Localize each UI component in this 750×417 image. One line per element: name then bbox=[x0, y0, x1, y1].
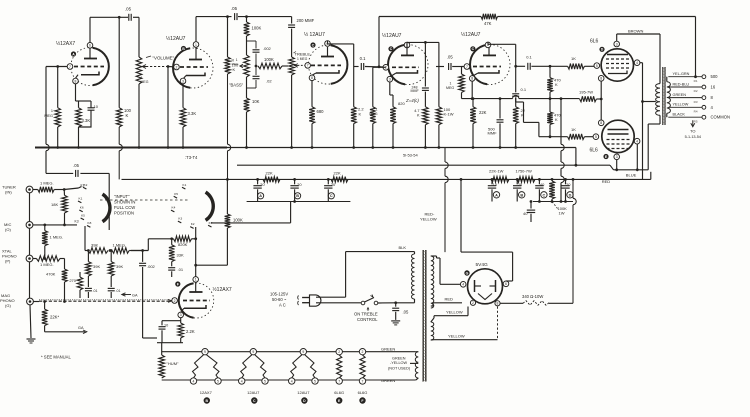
svg-text:.002: .002 bbox=[147, 264, 156, 269]
svg-text:MEG: MEG bbox=[141, 80, 149, 84]
svg-text:MEG: MEG bbox=[369, 112, 377, 116]
svg-text:CONTROL: CONTROL bbox=[357, 317, 378, 322]
svg-text:4: 4 bbox=[241, 379, 243, 383]
svg-text:K3: K3 bbox=[75, 220, 79, 224]
svg-text:GREEN: GREEN bbox=[381, 347, 395, 352]
svg-text:1750-7W: 1750-7W bbox=[516, 169, 532, 174]
svg-text:B: B bbox=[296, 194, 299, 198]
svg-text:1 MEG.: 1 MEG. bbox=[50, 235, 64, 240]
svg-text:40: 40 bbox=[540, 182, 545, 187]
svg-text:B: B bbox=[520, 193, 523, 197]
svg-text:3: 3 bbox=[182, 79, 184, 83]
svg-text:RED: RED bbox=[445, 296, 454, 301]
svg-text:6L6G: 6L6G bbox=[334, 390, 344, 395]
svg-text:K: K bbox=[417, 114, 420, 118]
svg-text:39K: 39K bbox=[93, 264, 100, 269]
svg-text:680: 680 bbox=[317, 109, 325, 114]
svg-text:40: 40 bbox=[523, 211, 528, 216]
svg-text:R1: R1 bbox=[694, 79, 698, 83]
svg-text:22K*: 22K* bbox=[50, 315, 59, 320]
svg-text:C: C bbox=[543, 193, 546, 197]
svg-text:20: 20 bbox=[297, 182, 302, 187]
svg-text:"BASS": "BASS" bbox=[229, 83, 244, 88]
svg-text:6L6G: 6L6G bbox=[358, 390, 368, 395]
svg-text:-YELLOW: -YELLOW bbox=[390, 361, 408, 365]
svg-text:5: 5 bbox=[217, 379, 219, 383]
svg-text:7: 7 bbox=[307, 64, 309, 68]
svg-text:MEG: MEG bbox=[44, 114, 53, 118]
svg-text:½12AU7: ½12AU7 bbox=[382, 32, 402, 39]
svg-text:10: 10 bbox=[164, 324, 168, 328]
svg-text:7: 7 bbox=[466, 65, 468, 69]
svg-text:4.7: 4.7 bbox=[414, 109, 419, 113]
svg-text:"HUM": "HUM" bbox=[167, 361, 180, 366]
svg-text:340 Ω-10W: 340 Ω-10W bbox=[522, 294, 543, 299]
svg-text:GREEN: GREEN bbox=[392, 357, 406, 361]
svg-text:YELLOW: YELLOW bbox=[673, 103, 689, 107]
svg-text:½12AX7: ½12AX7 bbox=[213, 286, 232, 293]
svg-text:.05: .05 bbox=[125, 7, 132, 12]
svg-text:Z=4(c): Z=4(c) bbox=[405, 98, 419, 103]
svg-text:8: 8 bbox=[311, 76, 313, 80]
svg-text:½ 12AU7: ½ 12AU7 bbox=[304, 31, 325, 38]
svg-text:22K-1W: 22K-1W bbox=[489, 169, 504, 174]
svg-text:7: 7 bbox=[338, 379, 340, 383]
svg-text:K8: K8 bbox=[88, 221, 92, 225]
svg-text:GA: GA bbox=[132, 294, 138, 298]
svg-text:3: 3 bbox=[616, 155, 618, 159]
svg-text:100K: 100K bbox=[233, 218, 243, 223]
svg-text:1K: 1K bbox=[571, 127, 576, 132]
svg-text:* SEE MANUAL: * SEE MANUAL bbox=[41, 355, 71, 360]
svg-text:½12AU7: ½12AU7 bbox=[166, 35, 186, 42]
svg-text:8: 8 bbox=[600, 121, 602, 125]
svg-text:.05: .05 bbox=[403, 310, 409, 315]
svg-text:3.3K: 3.3K bbox=[188, 111, 197, 116]
svg-text:9: 9 bbox=[302, 350, 304, 354]
svg-text:BLACK: BLACK bbox=[673, 113, 686, 117]
svg-text:R3: R3 bbox=[694, 100, 698, 104]
svg-text:K: K bbox=[521, 113, 524, 118]
svg-text:.002: .002 bbox=[263, 46, 272, 51]
svg-text:1: 1 bbox=[376, 108, 378, 112]
svg-text:GA: GA bbox=[78, 326, 84, 330]
svg-text:RED: RED bbox=[602, 179, 611, 184]
svg-text:470K: 470K bbox=[46, 272, 56, 277]
svg-text:6: 6 bbox=[89, 44, 91, 48]
svg-text:12AU7: 12AU7 bbox=[247, 390, 260, 395]
svg-text:5: 5 bbox=[314, 379, 316, 383]
svg-text:100K: 100K bbox=[252, 26, 262, 31]
svg-text:7: 7 bbox=[69, 65, 71, 69]
svg-text:5V4G: 5V4G bbox=[476, 262, 489, 268]
svg-text:K6: K6 bbox=[80, 206, 84, 210]
svg-text:4: 4 bbox=[636, 140, 638, 144]
svg-text::T3-T4: :T3-T4 bbox=[185, 155, 198, 160]
svg-text:10K: 10K bbox=[252, 99, 260, 104]
svg-text:1 MEG.: 1 MEG. bbox=[40, 262, 54, 267]
svg-text:(P): (P) bbox=[5, 259, 11, 264]
svg-text:K3: K3 bbox=[178, 217, 182, 221]
svg-text:39K: 39K bbox=[116, 264, 123, 269]
svg-text:20: 20 bbox=[518, 182, 523, 187]
svg-text:12AU7: 12AU7 bbox=[297, 390, 310, 395]
svg-text:YEL-GRN: YEL-GRN bbox=[673, 72, 690, 76]
svg-text:RED-BLU: RED-BLU bbox=[673, 82, 690, 86]
svg-text:10: 10 bbox=[493, 182, 498, 187]
svg-text:YELLOW: YELLOW bbox=[448, 334, 465, 339]
svg-text:1: 1 bbox=[195, 43, 197, 47]
svg-text:K2: K2 bbox=[84, 183, 88, 187]
svg-text:270: 270 bbox=[69, 278, 76, 283]
svg-text:4: 4 bbox=[711, 105, 714, 110]
svg-text:1: 1 bbox=[450, 82, 452, 86]
svg-text:K: K bbox=[555, 117, 558, 122]
svg-text:4: 4 bbox=[291, 379, 293, 383]
svg-text:K: K bbox=[233, 67, 236, 72]
svg-text:3.3K: 3.3K bbox=[82, 118, 91, 123]
svg-text:6L6: 6L6 bbox=[590, 148, 599, 154]
svg-text:2: 2 bbox=[472, 301, 474, 305]
svg-text:1K: 1K bbox=[571, 56, 576, 61]
svg-text:200 MMF: 200 MMF bbox=[297, 18, 315, 23]
svg-text:22K: 22K bbox=[334, 171, 341, 176]
svg-text:5: 5 bbox=[595, 135, 597, 139]
svg-text:BROWN: BROWN bbox=[628, 29, 643, 34]
svg-text:8: 8 bbox=[600, 77, 602, 81]
svg-text:C: C bbox=[330, 194, 333, 198]
svg-text:39K: 39K bbox=[91, 243, 98, 248]
svg-text:G: G bbox=[466, 271, 469, 275]
svg-text:"VOLUME": "VOLUME" bbox=[153, 56, 175, 61]
svg-text:6L6: 6L6 bbox=[590, 39, 599, 45]
svg-text:100K: 100K bbox=[264, 57, 274, 62]
svg-text:COMMON: COMMON bbox=[711, 115, 731, 120]
svg-text:TO: TO bbox=[690, 129, 695, 134]
svg-text:K: K bbox=[359, 112, 362, 117]
svg-text:YELLOW: YELLOW bbox=[446, 310, 463, 315]
svg-text:50-60 ~: 50-60 ~ bbox=[272, 297, 287, 302]
svg-text:3: 3 bbox=[389, 78, 391, 82]
svg-text:MEG: MEG bbox=[232, 62, 240, 66]
svg-text:½12AX7: ½12AX7 bbox=[56, 40, 75, 47]
svg-text:0.1: 0.1 bbox=[521, 87, 527, 92]
svg-text:6: 6 bbox=[505, 282, 507, 286]
svg-text:R5: R5 bbox=[694, 119, 698, 123]
svg-text:16: 16 bbox=[711, 85, 716, 90]
svg-text:2.2K: 2.2K bbox=[186, 329, 195, 334]
svg-text:22K: 22K bbox=[479, 110, 487, 115]
svg-text:1 MEG: 1 MEG bbox=[113, 243, 125, 248]
svg-text:47K: 47K bbox=[484, 21, 492, 26]
svg-text:K5: K5 bbox=[81, 214, 85, 218]
svg-text:GREEN: GREEN bbox=[673, 93, 687, 97]
svg-text:R4: R4 bbox=[694, 110, 698, 114]
svg-text:22K: 22K bbox=[266, 171, 273, 176]
svg-text:MEG: MEG bbox=[446, 86, 454, 90]
svg-text:8: 8 bbox=[711, 95, 714, 100]
svg-text:ON TREBLE: ON TREBLE bbox=[354, 312, 378, 317]
svg-text:8: 8 bbox=[75, 79, 77, 83]
svg-text:K7: K7 bbox=[209, 221, 213, 225]
svg-text:.01: .01 bbox=[178, 267, 184, 272]
svg-text:1W: 1W bbox=[559, 211, 565, 216]
svg-text:(G): (G) bbox=[5, 303, 11, 308]
svg-text:A: A bbox=[259, 194, 262, 198]
svg-text:K: K bbox=[126, 113, 129, 118]
svg-text:TREBLE: TREBLE bbox=[295, 52, 311, 57]
svg-text:4: 4 bbox=[462, 283, 464, 287]
svg-text:2: 2 bbox=[174, 299, 176, 303]
svg-text:20: 20 bbox=[260, 182, 265, 187]
svg-text:A: A bbox=[495, 193, 498, 197]
svg-text:820K: 820K bbox=[178, 242, 188, 247]
svg-text:4: 4 bbox=[636, 61, 638, 65]
svg-text:105-125V: 105-125V bbox=[270, 292, 288, 297]
svg-text:195-7W: 195-7W bbox=[579, 90, 593, 95]
svg-text:.05: .05 bbox=[447, 55, 453, 60]
svg-text:5: 5 bbox=[596, 64, 598, 68]
svg-text:4: 4 bbox=[193, 379, 195, 383]
svg-text:10: 10 bbox=[94, 104, 99, 109]
svg-text:1 MEG: 1 MEG bbox=[297, 57, 308, 61]
svg-text:K5: K5 bbox=[174, 192, 178, 196]
svg-text:7: 7 bbox=[362, 379, 364, 383]
svg-text:8: 8 bbox=[471, 77, 473, 81]
svg-text:3: 3 bbox=[180, 313, 182, 317]
svg-text:K1: K1 bbox=[79, 197, 83, 201]
svg-text:GREEN: GREEN bbox=[381, 378, 395, 383]
svg-text:5-1-13-54: 5-1-13-54 bbox=[685, 135, 701, 139]
svg-text:MMF: MMF bbox=[488, 131, 498, 136]
svg-text:2: 2 bbox=[176, 65, 178, 69]
svg-text:.01: .01 bbox=[116, 289, 121, 293]
svg-text:12AX7: 12AX7 bbox=[200, 390, 213, 395]
svg-text:500: 500 bbox=[711, 74, 719, 79]
svg-text:(IN): (IN) bbox=[5, 190, 12, 195]
svg-text:1: 1 bbox=[195, 278, 197, 282]
svg-text:K: K bbox=[555, 82, 558, 87]
svg-text:5l-53-54: 5l-53-54 bbox=[403, 153, 418, 158]
svg-text:½12AU7: ½12AU7 bbox=[461, 31, 481, 38]
svg-text:9: 9 bbox=[204, 350, 206, 354]
svg-text:YELLOW: YELLOW bbox=[420, 217, 437, 222]
svg-text:2: 2 bbox=[362, 350, 364, 354]
svg-text:MMF: MMF bbox=[411, 89, 420, 93]
svg-text:5: 5 bbox=[264, 379, 266, 383]
svg-text:BLK: BLK bbox=[399, 245, 407, 250]
svg-text:K2: K2 bbox=[191, 222, 195, 226]
svg-text:BLUE: BLUE bbox=[626, 172, 637, 177]
svg-text:R2: R2 bbox=[694, 89, 698, 93]
svg-text:FULL CCW: FULL CCW bbox=[114, 205, 135, 210]
svg-text:.05: .05 bbox=[73, 163, 79, 168]
svg-text:9: 9 bbox=[252, 350, 254, 354]
svg-text:20: 20 bbox=[566, 182, 571, 187]
svg-text:33K: 33K bbox=[177, 253, 184, 258]
svg-text:2: 2 bbox=[338, 350, 340, 354]
svg-text:820: 820 bbox=[398, 101, 405, 106]
svg-text:K1: K1 bbox=[183, 183, 187, 187]
svg-text:18K: 18K bbox=[51, 202, 58, 207]
svg-text:8: 8 bbox=[497, 302, 499, 306]
svg-text:1 MEG.: 1 MEG. bbox=[40, 181, 54, 186]
svg-text:0.1: 0.1 bbox=[360, 56, 366, 61]
svg-text:.01: .01 bbox=[93, 289, 98, 293]
svg-text:20: 20 bbox=[331, 182, 336, 187]
svg-text:0.1: 0.1 bbox=[526, 55, 532, 60]
svg-text:(O): (O) bbox=[5, 227, 11, 232]
svg-text:"INPUT": "INPUT" bbox=[114, 194, 130, 199]
svg-text:A C: A C bbox=[279, 303, 286, 308]
svg-text:3: 3 bbox=[616, 42, 618, 46]
svg-text:.02: .02 bbox=[266, 79, 272, 84]
svg-text:D: D bbox=[569, 193, 572, 197]
svg-text:K4: K4 bbox=[172, 206, 176, 210]
svg-text:1: 1 bbox=[51, 109, 53, 113]
svg-text:K-1W: K-1W bbox=[444, 112, 454, 117]
svg-text:.05: .05 bbox=[231, 6, 238, 11]
svg-text:POSITION: POSITION bbox=[114, 211, 134, 216]
svg-text:(NOT USED): (NOT USED) bbox=[388, 367, 411, 371]
